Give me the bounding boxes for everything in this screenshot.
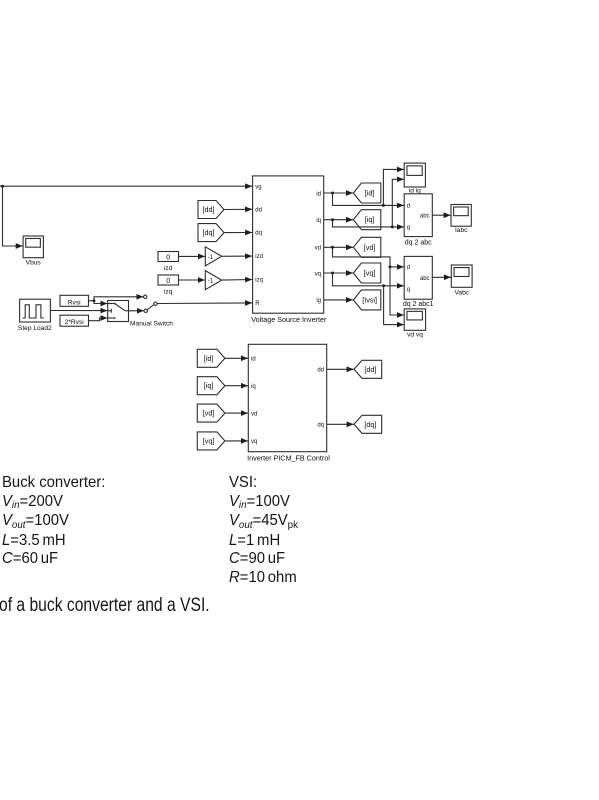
- wire: Rvsi branch to Switch input 1: [94, 301, 107, 304]
- svg-text:-1: -1: [208, 279, 214, 285]
- from tag [id]: [197, 349, 225, 367]
- svg-text:Inverter PICM_FB Control: Inverter PICM_FB Control: [247, 454, 330, 463]
- wire: izd constant to gain: [179, 255, 205, 257]
- junction on vq wire: [331, 272, 334, 275]
- svg-text:[iq]: [iq]: [365, 215, 375, 224]
- svg-text:[vq]: [vq]: [203, 436, 215, 445]
- wire: vd output to [vd] tag: [324, 246, 353, 248]
- scope Iabc: [451, 205, 471, 235]
- svg-text:[vq]: [vq]: [364, 269, 376, 278]
- wire: dq2abc1 to Vabc scope: [432, 276, 451, 278]
- gain -1 (izq): [205, 271, 221, 290]
- svg-text:R: R: [255, 301, 260, 307]
- junction on vd wire: [331, 246, 334, 249]
- svg-text:abc: abc: [420, 214, 430, 220]
- svg-text:iq: iq: [316, 218, 321, 224]
- svg-text:[dd]: [dd]: [203, 205, 215, 214]
- svg-text:vd vq: vd vq: [407, 332, 423, 339]
- wire: input vg feed from left edge: [0, 185, 252, 187]
- subsystem block dq 2 abc: [404, 194, 432, 247]
- scope Vabc: [451, 265, 472, 296]
- svg-text:izd: izd: [164, 265, 173, 272]
- svg-text:Iabc: Iabc: [455, 227, 468, 234]
- wire: iq branch to dq2abc q input: [333, 220, 404, 227]
- wire: 2*Rvsi to Switch input 3: [89, 318, 108, 321]
- figure caption: [0, 594, 210, 617]
- wire: Manual Switch output to VSI R input: [157, 302, 252, 305]
- wire: vq output to [vq] tag: [324, 272, 353, 274]
- svg-text:abc: abc: [420, 276, 430, 282]
- svg-text:[id]: [id]: [365, 189, 375, 198]
- goto tag [dd]: [354, 360, 382, 378]
- wire: [dq] to VSI dq input: [224, 232, 252, 234]
- wire: iq output to [iq] tag: [324, 219, 353, 221]
- svg-text:[Ivsi]: [Ivsi]: [362, 295, 377, 304]
- svg-text:Rvsi: Rvsi: [68, 299, 81, 306]
- svg-text:vq: vq: [315, 271, 321, 277]
- svg-text:dq 2 abc: dq 2 abc: [405, 239, 432, 246]
- junction on vd branch: [389, 265, 392, 268]
- wire: control dq output to [dq] tag: [327, 423, 354, 425]
- wire: [id] to control id input: [225, 357, 248, 359]
- svg-text:d: d: [407, 204, 410, 210]
- svg-text:vd: vd: [251, 411, 257, 417]
- svg-text:[iq]: [iq]: [204, 381, 214, 390]
- wire: branch up to id iq scope input 1: [383, 169, 403, 205]
- svg-text:dq: dq: [317, 423, 324, 429]
- svg-text:-1: -1: [208, 255, 214, 261]
- svg-text:[vd]: [vd]: [203, 409, 215, 418]
- wire: Switch output to Manual Switch input 2: [129, 310, 144, 312]
- parameters text right column: [229, 474, 298, 588]
- svg-text:vd: vd: [315, 246, 321, 252]
- wire: vd branch down to vd vq scope input 1: [333, 247, 404, 315]
- junction on vg feed: [1, 185, 4, 188]
- goto tag [dq]: [354, 415, 382, 433]
- svg-text:2*Rvsi: 2*Rvsi: [65, 319, 85, 326]
- wire: control dd output to [dd] tag: [327, 368, 354, 370]
- svg-text:vg: vg: [255, 185, 261, 191]
- svg-text:q: q: [407, 225, 410, 231]
- subsystem block dq 2 abc1: [403, 256, 434, 308]
- svg-text:iq: iq: [251, 384, 256, 390]
- scope id iq: [404, 163, 425, 194]
- constant Rvsi: [60, 295, 89, 306]
- junction on q wire: [391, 225, 394, 228]
- constant 0 izd: [158, 252, 179, 272]
- constant 0 izq: [158, 275, 179, 295]
- svg-text:[dq]: [dq]: [203, 228, 215, 237]
- switch block (3-input Switch): [108, 301, 129, 322]
- junction on iq wire: [331, 218, 334, 221]
- svg-text:[dq]: [dq]: [364, 420, 376, 429]
- wire: branch up to id iq scope input 2: [392, 179, 404, 227]
- wire: id branch to dq2abc d input: [333, 193, 404, 205]
- svg-text:vq: vq: [251, 439, 257, 445]
- junction on q1 wire: [382, 284, 385, 287]
- goto tag [vq]: [353, 263, 380, 283]
- svg-text:Vbus: Vbus: [26, 260, 42, 267]
- scope Vbus: [23, 236, 43, 267]
- svg-text:id: id: [251, 357, 256, 363]
- from tag [vq]: [197, 432, 225, 450]
- goto tag [vd]: [353, 237, 380, 257]
- wire: id output to [id] tag: [324, 192, 353, 194]
- svg-text:0: 0: [166, 255, 170, 262]
- svg-text:Voltage Source Inverter: Voltage Source Inverter: [251, 315, 327, 324]
- junction on d wire: [382, 204, 385, 207]
- wire: gain to VSI izd input: [222, 255, 252, 257]
- svg-text:dq: dq: [255, 231, 262, 237]
- svg-text:d: d: [407, 265, 410, 271]
- svg-text:Vabc: Vabc: [455, 289, 470, 296]
- svg-text:dd: dd: [255, 208, 262, 214]
- wire: ig output to [Ivsi] tag: [324, 299, 353, 301]
- wire: dq2abc to Iabc scope: [432, 214, 450, 216]
- goto tag [id]: [353, 183, 380, 203]
- constant 2*Rvsi: [60, 315, 89, 326]
- parameters text left column: [2, 474, 105, 569]
- svg-text:izq: izq: [255, 278, 263, 284]
- from tag [iq]: [197, 377, 225, 395]
- svg-text:0: 0: [166, 278, 170, 285]
- gain -1 (izd): [205, 247, 221, 266]
- goto tag [Ivsi]: [353, 290, 380, 310]
- wire: Rvsi to Manual Switch input 1: [89, 297, 144, 301]
- scope vd vq: [404, 309, 425, 339]
- goto tag [iq]: [353, 210, 380, 230]
- manual switch: [130, 295, 173, 327]
- wire: [vd] to control vd input: [225, 412, 248, 414]
- wire: [dd] to VSI dd input: [224, 208, 252, 210]
- wire: branch down to Vbus scope: [3, 186, 23, 246]
- svg-text:ig: ig: [316, 298, 321, 304]
- wire: gain to VSI izq input: [222, 279, 252, 282]
- wire: to dq2abc1 d input: [390, 266, 404, 268]
- wire: izq constant to gain: [179, 279, 205, 281]
- pulse generator Step Load2: [18, 299, 52, 332]
- wire: [vq] to control vq input: [225, 440, 248, 442]
- svg-text:[id]: [id]: [204, 354, 214, 363]
- svg-text:Manual Switch: Manual Switch: [130, 320, 173, 327]
- from tag [dd]: [198, 201, 224, 219]
- wire: Step Load2 to Switch middle input: [50, 310, 107, 312]
- svg-text:Step Load2: Step Load2: [18, 325, 52, 332]
- svg-text:q: q: [407, 287, 410, 293]
- svg-text:[dd]: [dd]: [364, 365, 376, 374]
- from tag [dq]: [198, 224, 224, 242]
- svg-text:dq 2 abc1: dq 2 abc1: [403, 301, 434, 308]
- wire: [iq] to control iq input: [225, 385, 248, 387]
- svg-text:izq: izq: [164, 288, 173, 295]
- from tag [vd]: [197, 404, 225, 422]
- svg-text:[vd]: [vd]: [364, 243, 376, 252]
- subsystem block Inverter PICM_FB Control: [247, 344, 330, 462]
- junction on Rvsi output: [93, 299, 96, 302]
- wire: vq branch to dq2abc1 q input: [333, 273, 404, 286]
- svg-text:izd: izd: [255, 254, 263, 260]
- subsystem block Voltage Source Inverter: [251, 176, 327, 324]
- junction on id wire: [331, 192, 334, 195]
- svg-text:dd: dd: [317, 368, 324, 374]
- svg-text:id: id: [316, 191, 321, 197]
- wire: branch down to vd vq scope input 2: [384, 286, 404, 325]
